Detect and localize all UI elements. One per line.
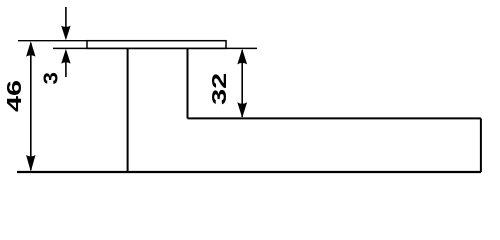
dimension 32 bottom arrowhead: [237, 102, 247, 118]
svg-text:46: 46: [4, 80, 26, 112]
lever top edge: [188, 117, 481, 119]
dimension 3 upper pointer line: [65, 7, 67, 30]
dimension 32 top arrowhead: [237, 49, 247, 65]
handle neck left edge: [127, 48, 129, 172]
dimension 46 bottom arrowhead: [26, 155, 35, 172]
door face line (rose bottom extended): [53, 47, 257, 49]
base line (lever bottom extended to door): [17, 171, 481, 173]
dimension 3 upper arrowhead (points down): [61, 26, 70, 41]
dimension 46 top arrowhead: [26, 41, 35, 56]
svg-text:32: 32: [209, 73, 231, 105]
svg-text:3: 3: [41, 72, 63, 85]
top reference line (rose top extended): [18, 40, 226, 42]
handle neck right edge: [187, 48, 189, 118]
dimension 3 lower arrowhead (points up): [61, 49, 70, 64]
dimension 32 line: [241, 50, 243, 117]
dimension 46 line: [30, 43, 32, 170]
dimension 3 lower pointer line: [65, 60, 67, 77]
rose plate profile rectangle: [87, 41, 226, 49]
lever right end: [480, 118, 482, 172]
